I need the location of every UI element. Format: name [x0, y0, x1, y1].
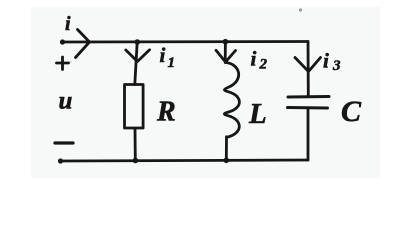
wire branch R bottom [134, 128, 137, 160]
plus sign [57, 57, 69, 70]
current arrow i2 [216, 50, 236, 62]
svg-text:2: 2 [259, 57, 268, 73]
current arrow i1 [126, 50, 150, 62]
inductor L coil [224, 63, 239, 138]
resistor R box [125, 85, 144, 129]
svg-text:i: i [323, 49, 329, 73]
svg-text:R: R [156, 97, 176, 128]
node input terminal [60, 39, 65, 44]
node bottom-left terminal [58, 158, 63, 163]
wire branch L top [224, 42, 227, 62]
node junction R-bottom [133, 158, 139, 164]
svg-text:i: i [65, 13, 71, 35]
speck near plus [70, 61, 72, 63]
wire branch C bottom [307, 108, 310, 160]
minus sign [55, 141, 73, 144]
node junction i1 [135, 39, 141, 45]
wire branch R top [135, 42, 137, 85]
capacitor C bottom plate [288, 106, 328, 110]
capacitor C top plate [288, 95, 329, 99]
wire branch C top [307, 42, 310, 96]
wire branch L bottom [225, 137, 228, 161]
current arrow i3 [295, 58, 321, 72]
speck artifact [299, 8, 302, 11]
wire bottom [60, 160, 308, 161]
svg-text:C: C [341, 95, 362, 128]
svg-text:1: 1 [168, 55, 176, 71]
svg-text:i: i [251, 47, 257, 71]
svg-text:i: i [160, 43, 166, 67]
svg-text:L: L [248, 98, 267, 130]
current arrow i [76, 30, 90, 58]
svg-text:u: u [59, 88, 73, 115]
node junction L-bottom [224, 158, 230, 164]
svg-text:3: 3 [332, 58, 341, 74]
node junction i2 [223, 39, 229, 45]
wire top [62, 40, 308, 43]
